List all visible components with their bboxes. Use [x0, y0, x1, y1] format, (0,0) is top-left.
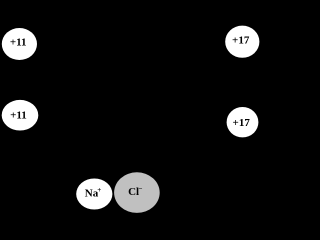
- chlorine atom nucleus +17 (top-right): [225, 26, 259, 58]
- chloride ion Cl- (bottom): [114, 172, 160, 213]
- chloride ion nucleus +17 (middle-right): [227, 107, 259, 137]
- sodium ion Na+ (bottom): [76, 179, 112, 210]
- svg-text:+11: +11: [10, 109, 27, 121]
- svg-text:+17: +17: [232, 35, 250, 47]
- svg-text:−: −: [139, 185, 143, 193]
- sodium ion nucleus +11 (middle-left): [2, 100, 39, 131]
- svg-text:+17: +17: [233, 117, 251, 129]
- sodium atom nucleus +11 (top-left): [2, 28, 37, 60]
- svg-text:+11: +11: [10, 37, 27, 49]
- svg-text:Cl: Cl: [128, 186, 139, 198]
- svg-text:+: +: [97, 186, 101, 194]
